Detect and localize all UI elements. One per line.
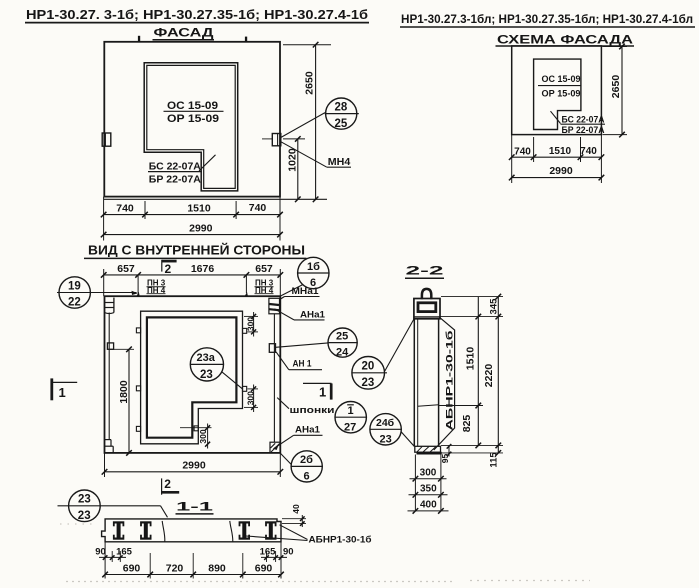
- inner bottom dim 2990: [102, 453, 283, 477]
- dim 1020 facade: [283, 136, 305, 202]
- svg-text:2990: 2990: [189, 223, 213, 235]
- svg-text:1020: 1020: [286, 148, 298, 172]
- section 2-2 body: [414, 319, 438, 447]
- opening inner outline: [147, 317, 237, 437]
- callout circle 1/27: [335, 402, 367, 434]
- svg-text:657: 657: [117, 263, 135, 275]
- svg-text:165: 165: [116, 547, 133, 558]
- section 2-2 title: [405, 264, 444, 279]
- svg-text:НР1-30.27. 3-1б; НР1-30.27.35: НР1-30.27. 3-1б; НР1-30.27.35-1б; НР1-30…: [26, 7, 368, 22]
- svg-text:2220: 2220: [483, 364, 495, 388]
- svg-text:АНа1: АНа1: [295, 424, 320, 434]
- scheme opening: [534, 59, 581, 129]
- svg-text:165: 165: [260, 547, 277, 558]
- svg-text:24: 24: [336, 347, 349, 359]
- facade panel outline: [104, 42, 280, 197]
- svg-text:ВИД С ВНУТРЕННЕЙ СТОРОНЫ: ВИД С ВНУТРЕННЕЙ СТОРОНЫ: [88, 243, 305, 258]
- svg-text:2990: 2990: [549, 165, 573, 177]
- shear key tab step: [194, 426, 198, 431]
- section 1-1 bottom dims: [95, 542, 293, 579]
- facade lifting loop right: [245, 37, 247, 42]
- scheme dim 2650: [603, 44, 628, 138]
- svg-text:2б: 2б: [300, 454, 313, 466]
- svg-text:300: 300: [420, 467, 437, 478]
- facade bottom second line: [104, 198, 327, 200]
- dim 300 bottom of opening: [180, 424, 212, 449]
- facade opening outer: [144, 63, 238, 191]
- svg-text:23: 23: [380, 433, 392, 445]
- svg-text:1510: 1510: [549, 146, 572, 157]
- corner embed bottom-right: [270, 442, 280, 453]
- svg-text:300: 300: [246, 391, 256, 405]
- facade title: [153, 27, 215, 39]
- svg-text:23: 23: [362, 377, 375, 389]
- svg-text:1510: 1510: [464, 347, 476, 371]
- joint line right: [230, 521, 233, 542]
- svg-text:2: 2: [165, 262, 172, 276]
- facade opening inner: [147, 65, 235, 188]
- callout circle 28/25: [281, 98, 359, 138]
- scan noise speckles: [60, 524, 590, 582]
- section 2-2 bottom dims 300/350/400: [408, 455, 449, 514]
- label PN3/PN4 right: [255, 279, 274, 295]
- svg-text:2650: 2650: [303, 71, 315, 95]
- corner embed top-right: [269, 298, 280, 314]
- svg-text:1: 1: [348, 405, 354, 417]
- facade bottom dim row 740-1510-740: [101, 197, 283, 241]
- svg-text:1: 1: [319, 385, 326, 400]
- label ANa1 top: [275, 309, 326, 320]
- svg-text:1б: 1б: [307, 261, 320, 273]
- label BS 22-07A / BR 22-07A: [148, 155, 216, 186]
- I-beam 1: [113, 521, 124, 539]
- svg-text:825: 825: [461, 415, 473, 433]
- label shponki: [277, 398, 334, 417]
- label PN3/PN4 left: [147, 279, 166, 295]
- inner panel outline: [105, 296, 281, 453]
- scheme title: [496, 35, 635, 47]
- dim line outer 345/2220/115: [497, 297, 499, 453]
- label MNa1: [281, 286, 320, 299]
- right 165/90 row: [261, 556, 287, 558]
- facade bottom dim row 2990: [101, 223, 283, 238]
- I-beam 2: [140, 521, 151, 539]
- svg-text:БС 22-07А: БС 22-07А: [149, 160, 201, 172]
- scheme label OC/OP: [538, 74, 581, 99]
- dim 300 top right of opening: [244, 312, 258, 337]
- svg-text:22: 22: [68, 297, 81, 309]
- svg-text:740: 740: [514, 146, 531, 157]
- bottom row 690/720/890/690: [105, 574, 281, 576]
- svg-text:АН 1: АН 1: [293, 359, 312, 369]
- callout circle 19/22: [57, 277, 138, 309]
- callout circle 24b/23: [370, 414, 415, 447]
- section 1-1 title: [176, 500, 214, 514]
- PN mark left on top edge: [136, 292, 139, 296]
- svg-text:шпонки: шпонки: [290, 405, 335, 416]
- svg-text:2990: 2990: [182, 459, 206, 471]
- shear key tab left 2: [136, 386, 140, 391]
- svg-text:АНа1: АНа1: [300, 309, 325, 319]
- label AN1: [276, 352, 322, 370]
- svg-text:90: 90: [283, 547, 294, 558]
- dim 1800: [110, 347, 134, 456]
- svg-text:720: 720: [166, 562, 184, 574]
- dim 300 mid right of opening: [244, 385, 258, 413]
- svg-text:20: 20: [362, 361, 375, 373]
- svg-text:40: 40: [291, 504, 301, 514]
- dim 2650 facade: [283, 42, 331, 202]
- svg-text:2-2: 2-2: [406, 264, 445, 278]
- svg-text:90: 90: [95, 546, 106, 557]
- label OC 15-09 / OP 15-09: [164, 100, 224, 125]
- title right: [400, 12, 695, 27]
- svg-text:115: 115: [488, 452, 499, 468]
- opening outer outline: [141, 311, 243, 444]
- svg-text:БР 22-07А: БР 22-07А: [149, 174, 201, 186]
- svg-text:1: 1: [59, 385, 66, 400]
- inner panel right inner line: [273, 314, 275, 443]
- svg-text:1800: 1800: [118, 380, 130, 404]
- lifting loop: [422, 289, 431, 299]
- svg-text:1-1: 1-1: [176, 500, 214, 514]
- svg-text:НР1-30.27.3-1бл; НР1-30.27.35-: НР1-30.27.3-1бл; НР1-30.27.35-1бл; НР1-3…: [401, 12, 693, 26]
- corner notch bottom-left: [105, 440, 114, 453]
- left 90/165 row: [99, 556, 126, 558]
- svg-text:МНа1: МНа1: [292, 286, 319, 296]
- svg-text:400: 400: [420, 499, 437, 510]
- svg-text:6: 6: [304, 470, 310, 482]
- section 1-1 outline: [102, 519, 281, 542]
- label ANa1 bottom: [275, 424, 323, 448]
- svg-text:300: 300: [198, 429, 208, 443]
- svg-text:ОР 15-09: ОР 15-09: [167, 113, 219, 125]
- right edge tab AN1: [269, 344, 275, 353]
- svg-text:740: 740: [249, 202, 267, 214]
- svg-text:ОС 15-09: ОС 15-09: [167, 100, 218, 112]
- callout circle 25/24: [276, 328, 358, 359]
- inner view title: [84, 243, 307, 259]
- ABNR1-30-1b bracket and label: [434, 317, 456, 450]
- svg-text:2: 2: [164, 477, 171, 491]
- svg-text:23: 23: [78, 510, 91, 522]
- corner detail top-left: [105, 298, 114, 314]
- section flag 1 right: [303, 383, 332, 399]
- section flag 1 left: [52, 378, 77, 400]
- label ABNR1-30-1b: [246, 525, 372, 546]
- svg-text:ОС 15-09: ОС 15-09: [542, 74, 581, 85]
- svg-text:2650: 2650: [610, 75, 622, 99]
- svg-text:ФАСАД: ФАСАД: [154, 27, 214, 39]
- svg-text:1676: 1676: [191, 263, 215, 275]
- svg-text:СХЕМА ФАСАДА: СХЕМА ФАСАДА: [497, 35, 633, 47]
- svg-text:25: 25: [336, 331, 348, 343]
- svg-text:28: 28: [335, 102, 348, 114]
- scheme label BS/BR: [551, 111, 606, 136]
- callout circle 1b/6: [281, 257, 330, 296]
- scheme bottom dims: [509, 135, 604, 183]
- callout circle 20/23: [352, 318, 415, 389]
- svg-text:25: 25: [335, 118, 348, 130]
- svg-text:АБНР1-30-1б: АБНР1-30-1б: [309, 535, 372, 546]
- inner panel left inner line: [108, 313, 110, 440]
- svg-text:23а: 23а: [197, 352, 216, 364]
- left edge embed AN1: [107, 343, 113, 349]
- svg-text:МН4: МН4: [328, 156, 351, 168]
- svg-text:1510: 1510: [187, 202, 211, 214]
- svg-text:690: 690: [255, 562, 273, 574]
- svg-text:657: 657: [255, 263, 273, 275]
- dim 40: [282, 504, 306, 527]
- PN mark right on top edge: [245, 292, 248, 296]
- facade lifting loop left: [138, 36, 140, 42]
- callout circle 2b/6: [281, 451, 323, 483]
- facade right edge embed MN4: [262, 134, 281, 146]
- callout circle 23a/23: [190, 348, 243, 389]
- section flag 2 top: [162, 260, 177, 276]
- svg-text:740: 740: [580, 146, 597, 157]
- section flag 2 bottom: [162, 477, 180, 495]
- shear key tab left 3: [136, 426, 140, 431]
- I-beam 4: [265, 521, 276, 539]
- svg-text:27: 27: [344, 421, 356, 433]
- bottom embed block: [415, 446, 442, 454]
- svg-text:23: 23: [78, 494, 91, 506]
- top embed block MN: [414, 299, 440, 319]
- shear key tab left 1: [136, 328, 140, 333]
- svg-text:ОР 15-09: ОР 15-09: [542, 88, 581, 99]
- section 2-2 right dims: [439, 294, 503, 468]
- svg-text:350: 350: [420, 483, 437, 494]
- facade left edge embed: [102, 133, 111, 146]
- joint line left: [162, 521, 165, 542]
- svg-text:890: 890: [208, 562, 226, 574]
- title left: [25, 7, 369, 23]
- label MN4: [281, 142, 351, 168]
- svg-text:740: 740: [116, 203, 134, 215]
- inner top dim row 657-1676-657: [101, 263, 283, 296]
- svg-text:690: 690: [123, 562, 141, 574]
- scheme panel outline: [512, 46, 602, 135]
- shear key tab right 1: [243, 328, 247, 333]
- svg-text:23: 23: [200, 369, 213, 381]
- svg-text:300: 300: [246, 317, 256, 331]
- dim 95: [448, 446, 450, 457]
- svg-text:24б: 24б: [376, 417, 395, 429]
- svg-text:АБНР1-30-1б: АБНР1-30-1б: [445, 330, 456, 430]
- shear key tab right 2: [243, 386, 247, 391]
- callout circle 23/23: [58, 490, 168, 522]
- svg-text:345: 345: [489, 298, 500, 315]
- svg-text:19: 19: [68, 280, 81, 292]
- I-beam 3: [239, 521, 250, 539]
- svg-text:БР 22-07А: БР 22-07А: [562, 125, 605, 136]
- dim line inner 1510/825: [477, 297, 479, 446]
